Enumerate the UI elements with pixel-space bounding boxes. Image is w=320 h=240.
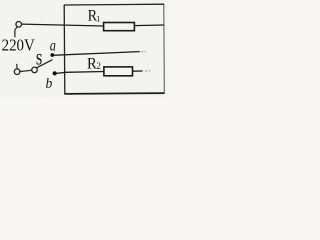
svg-text:1: 1 (96, 13, 100, 23)
svg-text:220V: 220V (2, 37, 36, 55)
svg-text:b: b (46, 75, 53, 92)
svg-text:a: a (50, 37, 56, 55)
svg-text:2: 2 (96, 61, 101, 71)
svg-text:S: S (36, 52, 42, 69)
